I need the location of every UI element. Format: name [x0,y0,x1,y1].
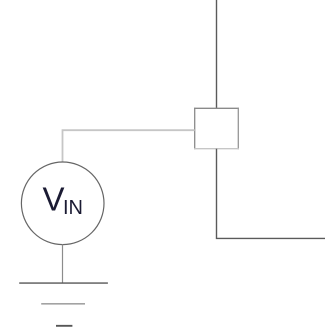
wire: VIN bottom to ground [62,244,64,283]
wire: light gray net from box left to VIN source top [63,130,195,163]
svg-text:V: V [43,181,65,218]
svg-text:IN: IN [63,197,83,219]
ground [19,283,108,326]
wire: box bottom down and right to edge [217,149,326,239]
box component (unlabeled square block) [194,108,239,150]
wire: top vertical net into box [216,0,218,108]
label VIN [43,181,84,219]
voltage source VIN [21,162,104,245]
